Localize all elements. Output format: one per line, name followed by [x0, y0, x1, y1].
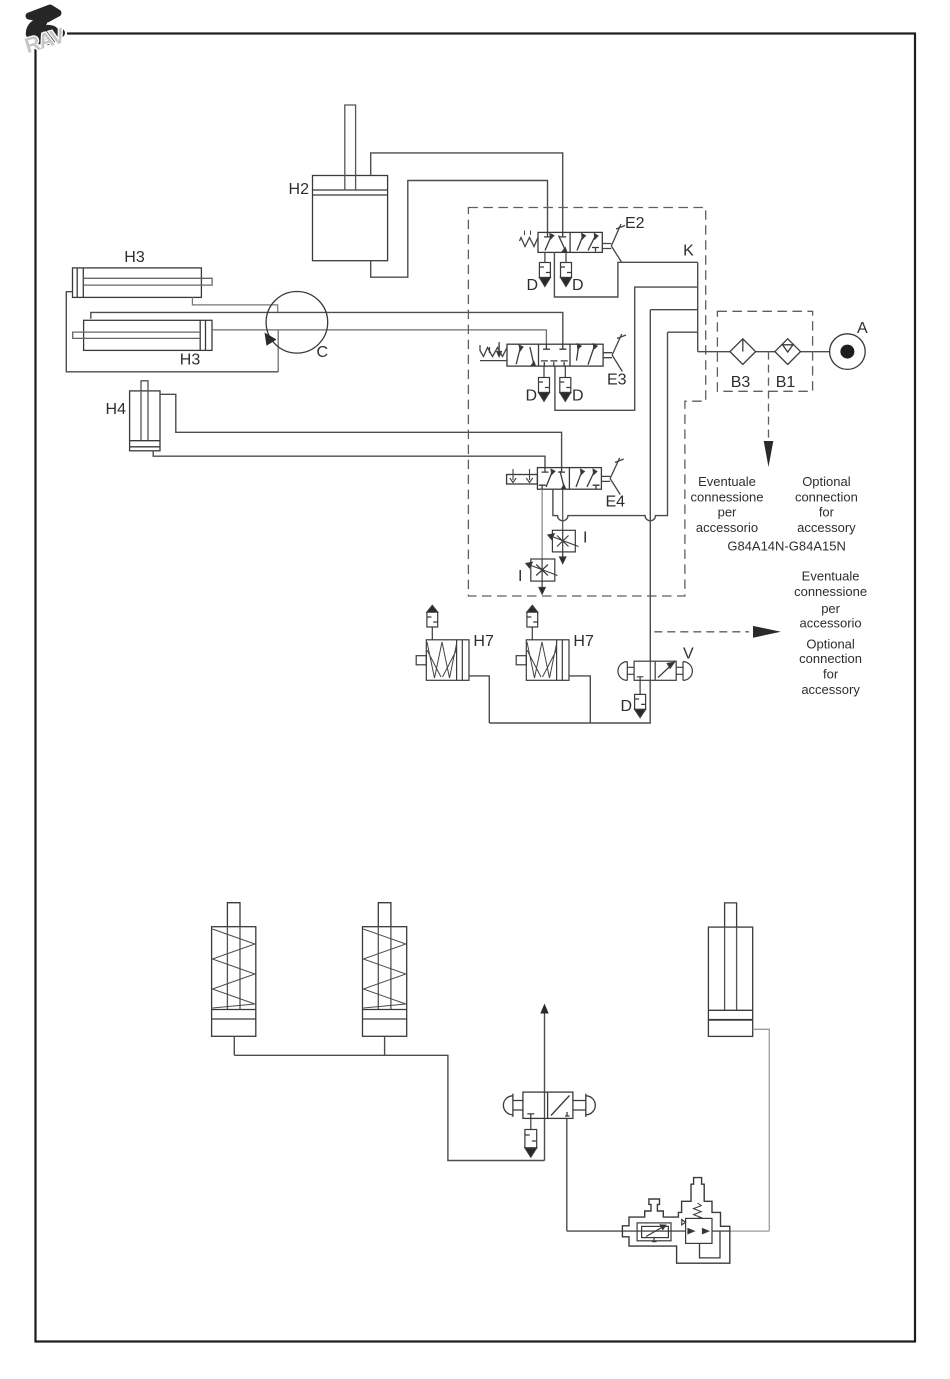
valve E4 [507, 458, 624, 495]
svg-text:H7: H7 [573, 633, 594, 650]
svg-text:accessorio: accessorio [696, 520, 758, 535]
pump C [265, 292, 328, 354]
svg-text:H4: H4 [106, 401, 127, 418]
wire H4 top port to E4 [160, 394, 562, 467]
wire junction B down [277, 330, 279, 372]
svg-text:connessione: connessione [691, 489, 764, 504]
wire E4 port to throttle upper [562, 489, 564, 530]
svg-text:H2: H2 [289, 181, 310, 198]
svg-text:D: D [526, 277, 538, 294]
node K vertical [697, 262, 699, 351]
silencer D on valve V [635, 680, 646, 717]
svg-text:connection: connection [799, 651, 862, 666]
wire supply K to A [698, 351, 830, 353]
wire spring cylinder middle [384, 1036, 386, 1055]
svg-text:for: for [819, 505, 835, 520]
svg-text:Optional: Optional [806, 637, 855, 652]
wire H3 upper bottom port [192, 297, 277, 312]
valve E3 [480, 334, 626, 372]
svg-text:E3: E3 [607, 372, 627, 389]
wire spring cylinder left [233, 1036, 235, 1055]
dashed box B3 B1 [717, 311, 812, 391]
silencer on lower valve [525, 1118, 537, 1157]
svg-text:E2: E2 [625, 215, 645, 232]
regulator main line [567, 1230, 730, 1232]
svg-text:K: K [683, 243, 694, 260]
wire E3 output to node K [555, 287, 698, 410]
svg-text:accessory: accessory [797, 520, 856, 535]
svg-text:connection: connection [795, 489, 858, 504]
FR unit casing [622, 1178, 729, 1264]
spring cylinder middle [363, 903, 407, 1037]
svg-text:accessory: accessory [801, 682, 860, 697]
silencer D on E3 right [560, 366, 571, 401]
wire H4 bottom port to E4 [153, 451, 545, 468]
svg-text:G84A14N-G84A15N: G84A14N-G84A15N [727, 539, 846, 554]
svg-text:D: D [620, 698, 632, 715]
cylinder H3 upper [73, 268, 213, 298]
svg-text:connessione: connessione [794, 584, 867, 599]
svg-text:H7: H7 [473, 633, 494, 650]
exhaust arrow up [540, 1004, 548, 1014]
throttle I lower [526, 559, 558, 594]
svg-text:I: I [518, 568, 522, 585]
svg-text:I: I [583, 530, 587, 547]
silencer D on E2 right [561, 252, 572, 286]
wire lower valve to regulator line [566, 1118, 568, 1231]
wire H7 right to manifold [569, 676, 590, 723]
wire E4 output with bridges to K tap [553, 332, 668, 521]
wire lower manifold [234, 1055, 544, 1160]
wire plain cylinder to regulator [753, 1029, 770, 1231]
wire K tap lower [668, 331, 698, 333]
wire line B to E3 [212, 330, 546, 344]
svg-text:Optional: Optional [802, 474, 851, 489]
svg-text:Eventuale: Eventuale [802, 569, 860, 584]
svg-text:D: D [525, 388, 537, 405]
wire E4 port to throttle lower [541, 489, 543, 559]
svg-text:A: A [857, 320, 868, 337]
lock cylinder H7 left [416, 605, 469, 680]
wire E2 output to node K [554, 252, 697, 297]
regulator main line grey [730, 1230, 770, 1232]
cylinder H3 lower [73, 320, 212, 350]
filter B3 [730, 339, 756, 365]
wire H3 upper loop left [66, 292, 278, 372]
svg-text:D: D [572, 388, 584, 405]
valve V [618, 661, 692, 680]
silencer D on E2 left [539, 252, 550, 286]
svg-text:C: C [317, 344, 329, 361]
wire manifold to valve V [489, 680, 650, 723]
filter B1 [775, 339, 801, 365]
wire line A to E3 [91, 312, 563, 344]
cylinder H2 [313, 105, 388, 261]
spring cylinder left [212, 903, 256, 1037]
logo RAV [0, 0, 68, 58]
wire K down to valve V [649, 310, 651, 662]
svg-text:per: per [821, 601, 840, 616]
svg-text:V: V [683, 646, 694, 663]
pressure regulator in FR unit [682, 1203, 712, 1243]
dashed arrow right [654, 626, 781, 638]
svg-text:H3: H3 [180, 352, 201, 369]
wire H2 top port to E2 [371, 153, 563, 233]
svg-text:B3: B3 [731, 374, 751, 391]
lock cylinder H7 right [516, 605, 569, 680]
throttle I upper [548, 530, 579, 563]
svg-text:H3: H3 [124, 249, 145, 266]
svg-text:E4: E4 [606, 494, 626, 511]
silencer D on E3 left [539, 366, 550, 401]
svg-text:accessorio: accessorio [800, 615, 862, 630]
plain cylinder right [708, 903, 752, 1037]
port A [830, 334, 866, 370]
wire K tap upper [650, 309, 697, 311]
svg-text:for: for [823, 667, 839, 682]
lower valve [503, 1092, 595, 1118]
FR feedback loop [700, 1231, 721, 1258]
cylinder H4 [130, 381, 160, 451]
svg-text:per: per [718, 505, 737, 520]
wire riser to exhaust arrow [544, 1013, 546, 1161]
wire H7 left to manifold [469, 676, 489, 723]
valve E2 [520, 224, 626, 262]
svg-text:D: D [572, 277, 584, 294]
svg-text:Eventuale: Eventuale [698, 474, 756, 489]
svg-text:B1: B1 [776, 374, 796, 391]
wire H2 bottom port to E2 [371, 181, 548, 278]
needle valve in FR unit [637, 1223, 671, 1242]
dashed drop arrow [764, 352, 774, 467]
dashed enclosure [468, 208, 705, 597]
